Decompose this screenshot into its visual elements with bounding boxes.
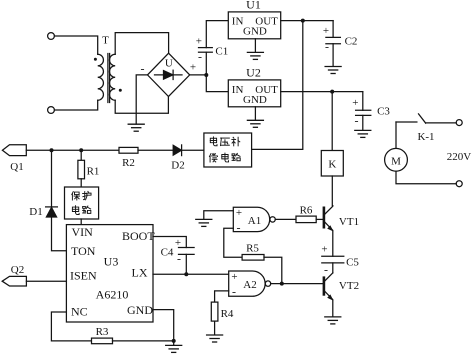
svg-text:C1: C1	[215, 46, 228, 58]
wire D2 to compensation circuit	[182, 149, 204, 151]
comparator A1 body	[233, 207, 269, 231]
svg-text:D1: D1	[29, 206, 42, 218]
wire node to D1	[51, 150, 53, 207]
transformer T secondary winding	[109, 54, 115, 100]
svg-text:ISEN: ISEN	[70, 269, 97, 283]
terminal (220V bottom)	[456, 181, 462, 187]
wire A2 minus input to R4	[215, 291, 229, 302]
wire motor to terminal	[396, 171, 456, 184]
svg-text:M: M	[391, 155, 401, 167]
wire D1 to TON	[52, 217, 67, 251]
svg-text:U2: U2	[246, 65, 261, 79]
svg-text:-: -	[198, 50, 202, 64]
svg-text:R3: R3	[96, 326, 109, 338]
wire R4 to ground	[214, 321, 216, 335]
wire U1 OUT node down to compensation circuit	[252, 21, 303, 150]
wire C2 drop	[332, 21, 334, 38]
wire C5 to VT2 collector	[332, 263, 334, 273]
ground (U2 GND)	[247, 120, 263, 127]
wire A1 minus input to R5	[224, 228, 242, 257]
wire C2 to ground	[332, 44, 334, 67]
svg-text:-: -	[355, 113, 359, 127]
label 偿电路 (row 2)	[209, 153, 217, 162]
wire main line Q1 to R2	[26, 149, 119, 151]
svg-text:-: -	[325, 40, 329, 54]
regulator U2 box	[228, 80, 280, 107]
node R1 branch	[79, 148, 83, 152]
wire LX to A2 plus input	[153, 273, 229, 275]
svg-text:-: -	[141, 62, 145, 76]
transistor VT2 base bar	[323, 278, 326, 295]
motor M circle	[385, 148, 408, 171]
svg-text:U3: U3	[104, 255, 119, 269]
ground (A1 plus)	[196, 219, 212, 226]
label 保护 (row 1)	[72, 192, 80, 200]
capacitor C3	[356, 109, 371, 111]
wire A1 plus input to ground	[204, 211, 234, 220]
ground (bridge)	[128, 124, 144, 131]
resistor R3	[92, 338, 113, 344]
svg-text:U: U	[165, 57, 173, 69]
svg-text:T: T	[102, 35, 109, 47]
resistor R4	[211, 302, 218, 321]
svg-text:R1: R1	[87, 166, 100, 178]
ground (U1 GND)	[247, 52, 263, 59]
svg-text:GND: GND	[243, 94, 267, 106]
polarity dot secondary	[119, 89, 122, 92]
wire secondary top to bridge top	[115, 33, 168, 55]
wire R6 to VT1 base	[316, 218, 323, 220]
resistor R1	[78, 160, 85, 179]
regulator U1 box	[228, 12, 280, 39]
svg-text:R6: R6	[300, 204, 313, 216]
node R3/GND junction	[172, 339, 176, 343]
svg-text:NC: NC	[71, 304, 88, 318]
svg-text:C4: C4	[161, 246, 174, 258]
wire U2 OUT node to relay K	[331, 92, 333, 151]
terminal J2 (primary bottom)	[48, 107, 55, 114]
terminal J1 (primary top)	[48, 33, 55, 40]
svg-text:K: K	[328, 159, 336, 171]
svg-text:+: +	[190, 62, 196, 74]
wire switch feed	[396, 121, 417, 123]
svg-text:R2: R2	[122, 157, 135, 169]
capacitor C2	[326, 36, 341, 38]
transistor VT2 emitter with arrow	[325, 291, 333, 317]
transformer T core	[107, 54, 109, 103]
transistor VT2 collector	[325, 273, 333, 281]
svg-text:C5: C5	[346, 256, 359, 268]
wire C3 drop	[362, 92, 364, 111]
svg-text:R5: R5	[246, 243, 259, 255]
diode D2	[173, 145, 181, 155]
transistor VT1 collector	[325, 206, 333, 215]
polarity dot primary	[94, 58, 97, 61]
capacitor C4	[179, 247, 195, 249]
wire Q2 to ISEN	[26, 280, 66, 282]
ground (C2)	[325, 67, 341, 74]
svg-text:IN: IN	[232, 84, 244, 96]
block: voltage compensation circuit box	[204, 133, 252, 167]
ground (U3 GND)	[166, 345, 182, 352]
svg-text:TON: TON	[71, 244, 96, 258]
svg-text:R4: R4	[221, 308, 234, 320]
wire J2 to primary winding	[54, 100, 97, 110]
node bridge output	[204, 73, 208, 77]
wire bridge plus output	[190, 74, 207, 76]
wire A2 output to VT2 base	[271, 283, 323, 285]
wire U1 GND to ground	[254, 39, 256, 52]
svg-text:-: -	[232, 285, 236, 299]
node LX	[184, 272, 188, 276]
svg-text:220V: 220V	[447, 151, 472, 163]
wire BOOT to C4	[153, 237, 186, 248]
svg-text:+: +	[352, 97, 358, 109]
svg-text:-: -	[237, 221, 241, 235]
svg-text:+: +	[236, 207, 242, 219]
svg-text:VT2: VT2	[339, 280, 359, 292]
node U2 OUT	[330, 90, 334, 94]
svg-text:+: +	[175, 237, 181, 249]
relay coil K box	[321, 151, 343, 177]
label 电压补 (row 1)	[210, 137, 217, 146]
wire R3 to ground node	[113, 340, 174, 342]
svg-text:-: -	[177, 251, 181, 265]
svg-text:Q1: Q1	[10, 161, 23, 173]
wire U2 GND to ground	[254, 107, 256, 120]
connector Q2 arrow	[2, 276, 26, 286]
IC U3 box	[66, 225, 153, 322]
svg-text:+: +	[231, 271, 237, 283]
wire node to U2 IN	[206, 75, 228, 92]
wire R1 to protection circuit	[80, 179, 82, 187]
wire C3 to ground	[362, 115, 364, 130]
svg-text:C2: C2	[345, 35, 358, 47]
svg-text:+: +	[323, 25, 329, 37]
comparator A1 output bubble	[270, 217, 275, 222]
connector Q1 arrow	[2, 145, 26, 156]
wire U2 OUT	[281, 91, 363, 93]
resistor R6	[296, 216, 316, 223]
svg-text:A1: A1	[248, 215, 261, 227]
bridge rectifier U diamond	[148, 53, 190, 96]
transistor VT1 emitter with arrow	[325, 222, 333, 256]
svg-text:+: +	[196, 36, 202, 48]
wire A1 output to R6	[275, 218, 296, 220]
svg-text:GND: GND	[127, 303, 153, 317]
wire R2 to D2	[138, 149, 173, 151]
wire bridge minus to ground	[136, 75, 147, 124]
wire U1 OUT	[281, 20, 333, 22]
ground (C3)	[355, 130, 371, 137]
svg-text:GND: GND	[243, 26, 267, 38]
label 电路 (row 2)	[72, 206, 79, 215]
svg-text:LX: LX	[132, 265, 148, 279]
capacitor C1	[199, 51, 213, 53]
wire GND pin to ground node	[153, 310, 174, 346]
wire R5 to A2 output node	[264, 257, 282, 283]
svg-text:U1: U1	[246, 0, 261, 12]
wire node to C1	[205, 52, 207, 75]
svg-text:K-1: K-1	[417, 131, 434, 143]
svg-text:VT1: VT1	[339, 216, 359, 228]
svg-text:+: +	[321, 243, 327, 255]
svg-text:IN: IN	[232, 16, 244, 28]
comparator A2 output bubble	[265, 281, 270, 286]
svg-text:D2: D2	[171, 159, 184, 171]
relay contact K-1 blade	[419, 114, 426, 123]
node D1 branch	[50, 148, 54, 152]
ground (VT2 emitter)	[325, 317, 341, 324]
wire to motor	[395, 122, 397, 148]
resistor R2	[119, 147, 138, 153]
wire C1 to U1 IN	[206, 21, 228, 48]
bridge rectifier internal diode	[155, 74, 183, 76]
comparator A2 body	[229, 271, 265, 296]
svg-text:A6210: A6210	[96, 287, 129, 301]
transformer T primary winding	[98, 54, 104, 100]
resistor R5	[242, 255, 264, 261]
wire switch to terminal	[426, 122, 457, 124]
ground (R4)	[207, 335, 223, 342]
wire protection circuit to U3	[80, 219, 82, 225]
svg-text:C3: C3	[377, 106, 390, 118]
svg-text:A2: A2	[243, 279, 256, 291]
svg-text:BOOT: BOOT	[122, 229, 155, 243]
wire secondary bottom to bridge bottom	[115, 97, 168, 114]
transistor VT1 base bar	[323, 208, 326, 227]
svg-text:VIN: VIN	[72, 225, 94, 239]
diode D1	[46, 206, 58, 208]
wire node to R1	[80, 150, 82, 160]
wire J1 to primary winding	[54, 36, 97, 54]
terminal (220V top)	[456, 120, 462, 126]
svg-text:Q2: Q2	[11, 264, 24, 276]
block: protection circuit box	[65, 187, 99, 219]
node A2 output	[280, 282, 284, 286]
wire NC loop to R3	[51, 312, 91, 341]
capacitor C5	[322, 255, 344, 257]
svg-text:-: -	[324, 263, 328, 277]
node U1 OUT	[301, 19, 305, 23]
wire K to VT1 collector	[331, 176, 333, 206]
wire C4 to LX line	[185, 254, 187, 274]
